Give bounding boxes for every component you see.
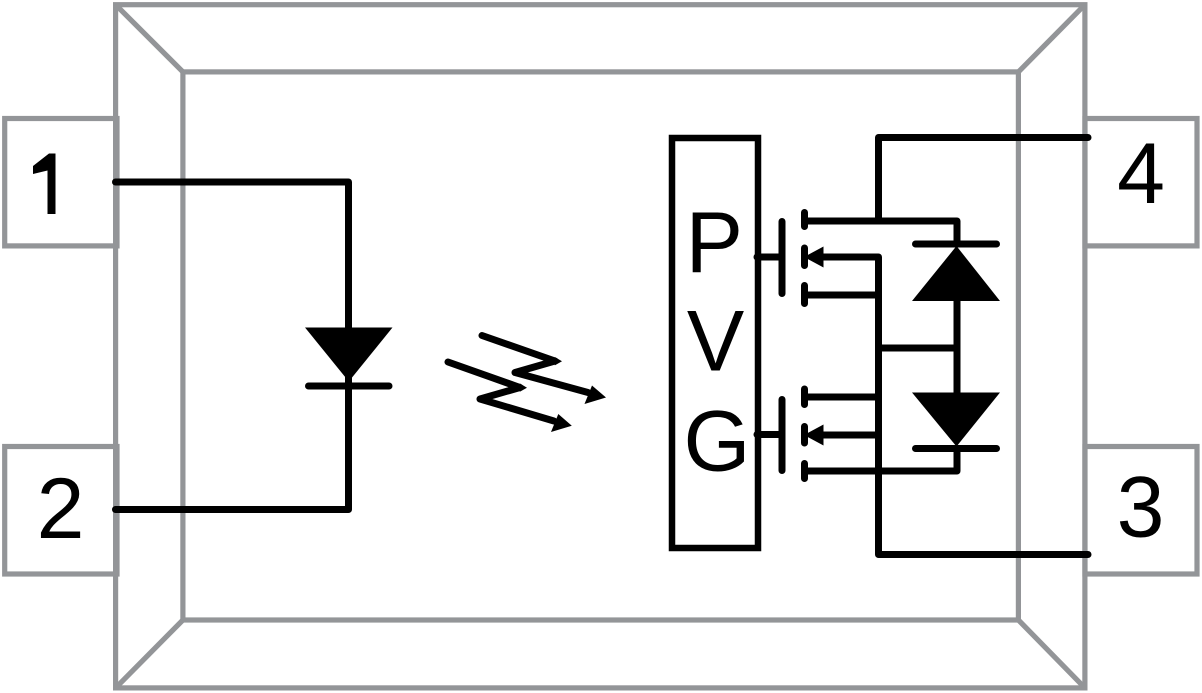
wire Q1 source	[805, 292, 879, 299]
pin 1 label	[33, 154, 56, 215]
svg-text:3: 3	[1117, 460, 1165, 556]
gate bar Q2	[779, 400, 786, 471]
wire Q1 body/source down to bottom wire and pin3	[820, 257, 1088, 555]
package inner outline	[183, 72, 1019, 620]
LED cathode bar	[309, 383, 390, 390]
light arrow 2 bend spike	[520, 383, 527, 391]
wire pin1 to LED anode, LED vertical, wire LED cathode to pin2	[116, 182, 349, 510]
pin 4 lead	[1085, 119, 1197, 246]
diode D1 triangle	[912, 246, 1000, 301]
wire diode D1 anode to D2 anode	[954, 300, 961, 393]
gate stub Q2	[757, 431, 779, 438]
gate stub Q1	[757, 254, 779, 261]
wire mid junction to diode midpoint	[879, 345, 958, 352]
PVG photovoltaic generator box U1	[672, 138, 758, 548]
channel dashes Q2	[801, 389, 808, 479]
package outer outline	[116, 5, 1085, 688]
body arrow Q1	[804, 247, 824, 268]
channel dashes Q1	[801, 213, 808, 304]
LED D3 triangle	[305, 328, 393, 382]
bevel bottom-right	[1018, 620, 1085, 688]
light arrow 2 shaft	[448, 362, 554, 421]
pin 3 lead	[1085, 447, 1197, 575]
light arrow 1 bend spike	[555, 357, 562, 365]
bevel top-left	[116, 5, 183, 72]
svg-text:P: P	[686, 195, 743, 291]
light arrow 1 head	[585, 386, 607, 405]
wire Q1 drain line to diode D1 cathode	[805, 221, 958, 244]
diode D2 triangle	[912, 393, 1000, 447]
bevel bottom-left	[116, 620, 183, 688]
svg-text:4: 4	[1117, 126, 1165, 222]
gate bar Q1	[779, 222, 786, 294]
body arrow Q2	[804, 425, 824, 446]
light arrow 2 head	[551, 414, 572, 432]
pin 2 lead	[5, 447, 117, 575]
svg-text:V: V	[687, 294, 744, 390]
wire pin4 to Q1 drain	[879, 138, 1089, 222]
svg-text:G: G	[684, 394, 751, 490]
wire Q2 body	[820, 432, 879, 439]
wire Q2 drain	[805, 394, 879, 401]
diode D1 cathode bar	[916, 241, 997, 248]
pin 1 lead	[5, 119, 117, 246]
light arrow 1 shaft	[482, 336, 588, 393]
bevel top-right	[1018, 5, 1085, 72]
svg-text:2: 2	[37, 461, 85, 557]
wire Q2 source to diode D2 cathode	[805, 453, 958, 472]
diode D2 cathode bar	[916, 445, 997, 452]
